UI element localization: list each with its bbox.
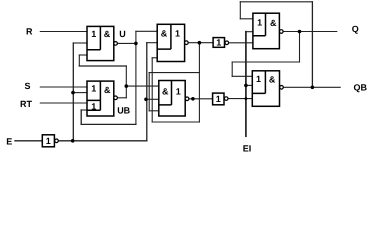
gate G2 partitions — [87, 81, 100, 110]
wire vertical beta — [148, 73, 150, 111]
svg-text:1: 1 — [91, 83, 96, 93]
wire E-inv to gate2 — [73, 92, 87, 94]
svg-text:UB: UB — [117, 105, 130, 115]
inverter SB2 box — [213, 93, 224, 105]
inverter SB1 box — [213, 38, 224, 48]
wire alpha horizontal — [152, 121, 199, 123]
svg-text:1: 1 — [46, 136, 51, 146]
wire U feedback into gate2 — [81, 109, 87, 111]
junction dot gate4 output — [191, 97, 195, 101]
bubble SB3 output — [55, 139, 59, 143]
junction dot gate3 output — [198, 41, 202, 45]
bubble gate G5 output — [280, 30, 284, 34]
wire vertical Q feedback right — [299, 32, 301, 63]
junction dot E row — [71, 139, 75, 143]
wire SB1 output into gate5 — [229, 42, 253, 44]
wire vertical Q feedback left — [231, 62, 233, 76]
wire Q feedback middle — [232, 61, 299, 63]
wire vertical U column — [135, 31, 137, 124]
wire vertical U loop left — [80, 110, 82, 124]
wire E-inv to gate1 input2 — [73, 42, 87, 44]
wire UB loop horizontal under gate1 — [79, 65, 126, 67]
gate G3 box — [157, 24, 184, 61]
svg-text:&: & — [104, 85, 111, 95]
svg-text:1: 1 — [176, 86, 181, 96]
wire vertical E-inv left column — [72, 43, 74, 141]
svg-text:1: 1 — [175, 29, 180, 39]
junction dot E-inv to gate2 — [71, 91, 75, 95]
wire vertical E-inv right column — [146, 43, 148, 141]
wire U loop horizontal under gate2 — [81, 123, 136, 125]
bubble gate G3 output — [185, 41, 189, 45]
wire UB branch into gate4 — [126, 85, 159, 87]
wire alpha into gate3 — [152, 57, 157, 59]
wire RT input — [40, 102, 87, 104]
junction dot UB branch — [125, 84, 129, 88]
svg-text:Q: Q — [352, 24, 359, 34]
wire vertical gate3 output feedback — [198, 43, 200, 122]
svg-text:&: & — [162, 86, 169, 96]
gate G6 partition — [252, 71, 265, 94]
svg-text:R: R — [26, 27, 33, 37]
bubble gate G1 output — [114, 42, 118, 46]
junction dot QB output — [311, 86, 315, 90]
wire E after inverter — [58, 140, 147, 142]
bubble gate G6 output — [280, 86, 284, 90]
junction dot E-inv to gate4 — [144, 98, 148, 102]
wire gate3 output to inverter SB1 — [188, 42, 213, 44]
wire beta into gate4 — [149, 110, 159, 112]
inverter SB3 box (E input) — [42, 135, 54, 147]
svg-text:1: 1 — [216, 38, 221, 48]
gate G3 partition — [157, 24, 171, 49]
svg-text:1: 1 — [216, 94, 221, 104]
wire QB feedback into gate5 — [240, 18, 253, 20]
svg-text:&: & — [104, 29, 111, 39]
svg-text:1: 1 — [91, 102, 96, 112]
svg-text:&: & — [269, 74, 276, 84]
wire U output of gate1 — [118, 42, 136, 44]
svg-text:1: 1 — [256, 74, 261, 84]
wire S input — [40, 86, 87, 88]
wire E input — [15, 140, 42, 142]
wire QB feedback top — [240, 1, 312, 3]
bubble SB2 output — [224, 97, 228, 101]
wire vertical EI — [245, 32, 247, 137]
junction dot U branch — [134, 42, 138, 46]
wire E-inv into gate3 — [147, 42, 157, 44]
wire beta horizontal — [149, 72, 199, 74]
gate G6 box — [252, 71, 279, 107]
gate G1 box — [87, 26, 114, 60]
wire Q feedback into gate6 — [232, 75, 252, 77]
svg-text:E: E — [6, 137, 12, 147]
svg-text:QB: QB — [354, 82, 368, 92]
svg-text:&: & — [270, 18, 277, 28]
svg-text:S: S — [25, 81, 31, 91]
bubble gate G4 output — [185, 97, 189, 101]
wire U top branch into gate3 — [136, 30, 157, 32]
wire R input — [40, 31, 87, 33]
wire Q output — [283, 31, 337, 33]
svg-text:1: 1 — [257, 18, 262, 28]
wire gate4 output to inverter SB2 — [189, 98, 213, 100]
svg-text:1: 1 — [91, 29, 96, 39]
wire vertical UB loop left — [78, 55, 80, 66]
wire vertical UB column — [125, 66, 127, 98]
junction dot EI to gate6 — [244, 84, 248, 88]
gate G5 box — [253, 13, 280, 49]
bubble SB1 output — [225, 41, 229, 45]
gate G5 partition — [253, 13, 266, 36]
bubble gate G2 output — [114, 96, 118, 100]
svg-text:&: & — [161, 29, 168, 39]
wire vertical QB feedback tall — [311, 2, 313, 88]
wire UB feedback into gate1 input3 — [79, 54, 87, 56]
gate G2 box — [87, 81, 114, 116]
wire QB output — [283, 86, 340, 88]
junction dot EI at SB2 output — [245, 97, 248, 100]
wire E-inv into gate4 — [146, 98, 159, 100]
wire UB output of gate2 — [118, 97, 127, 99]
svg-text:U: U — [119, 29, 126, 39]
wire EI branch into gate5 — [246, 31, 253, 33]
svg-text:RT: RT — [20, 99, 32, 109]
wire vertical alpha — [151, 58, 153, 122]
svg-text:EI: EI — [243, 143, 252, 153]
wire EI branch into gate6 — [246, 84, 252, 86]
junction dot Q output — [298, 30, 302, 34]
gate G4 partition — [159, 81, 172, 105]
gate G4 box — [159, 81, 185, 117]
gate G1 partition — [87, 26, 100, 49]
wire vertical QB feedback left — [239, 2, 241, 19]
wire SB2 output into gate6 — [228, 98, 252, 100]
